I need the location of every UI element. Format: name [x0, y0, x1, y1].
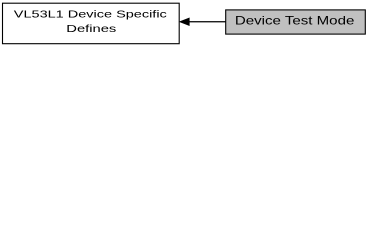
- background: [0, 0, 368, 51]
- node box: VL53L1 Device Specific Defines: [3, 3, 180, 44]
- svg-text:VL53L1 Device Specific: VL53L1 Device Specific: [14, 9, 167, 20]
- arrowhead: [180, 18, 189, 25]
- doxygen group dependency graph: [0, 0, 368, 51]
- edge wire: [189, 21, 226, 23]
- svg-text:Device Test Mode: Device Test Mode: [235, 15, 355, 28]
- node box: Device Test Mode (current node, grey fill): [226, 10, 366, 34]
- svg-text:Defines: Defines: [66, 24, 116, 35]
